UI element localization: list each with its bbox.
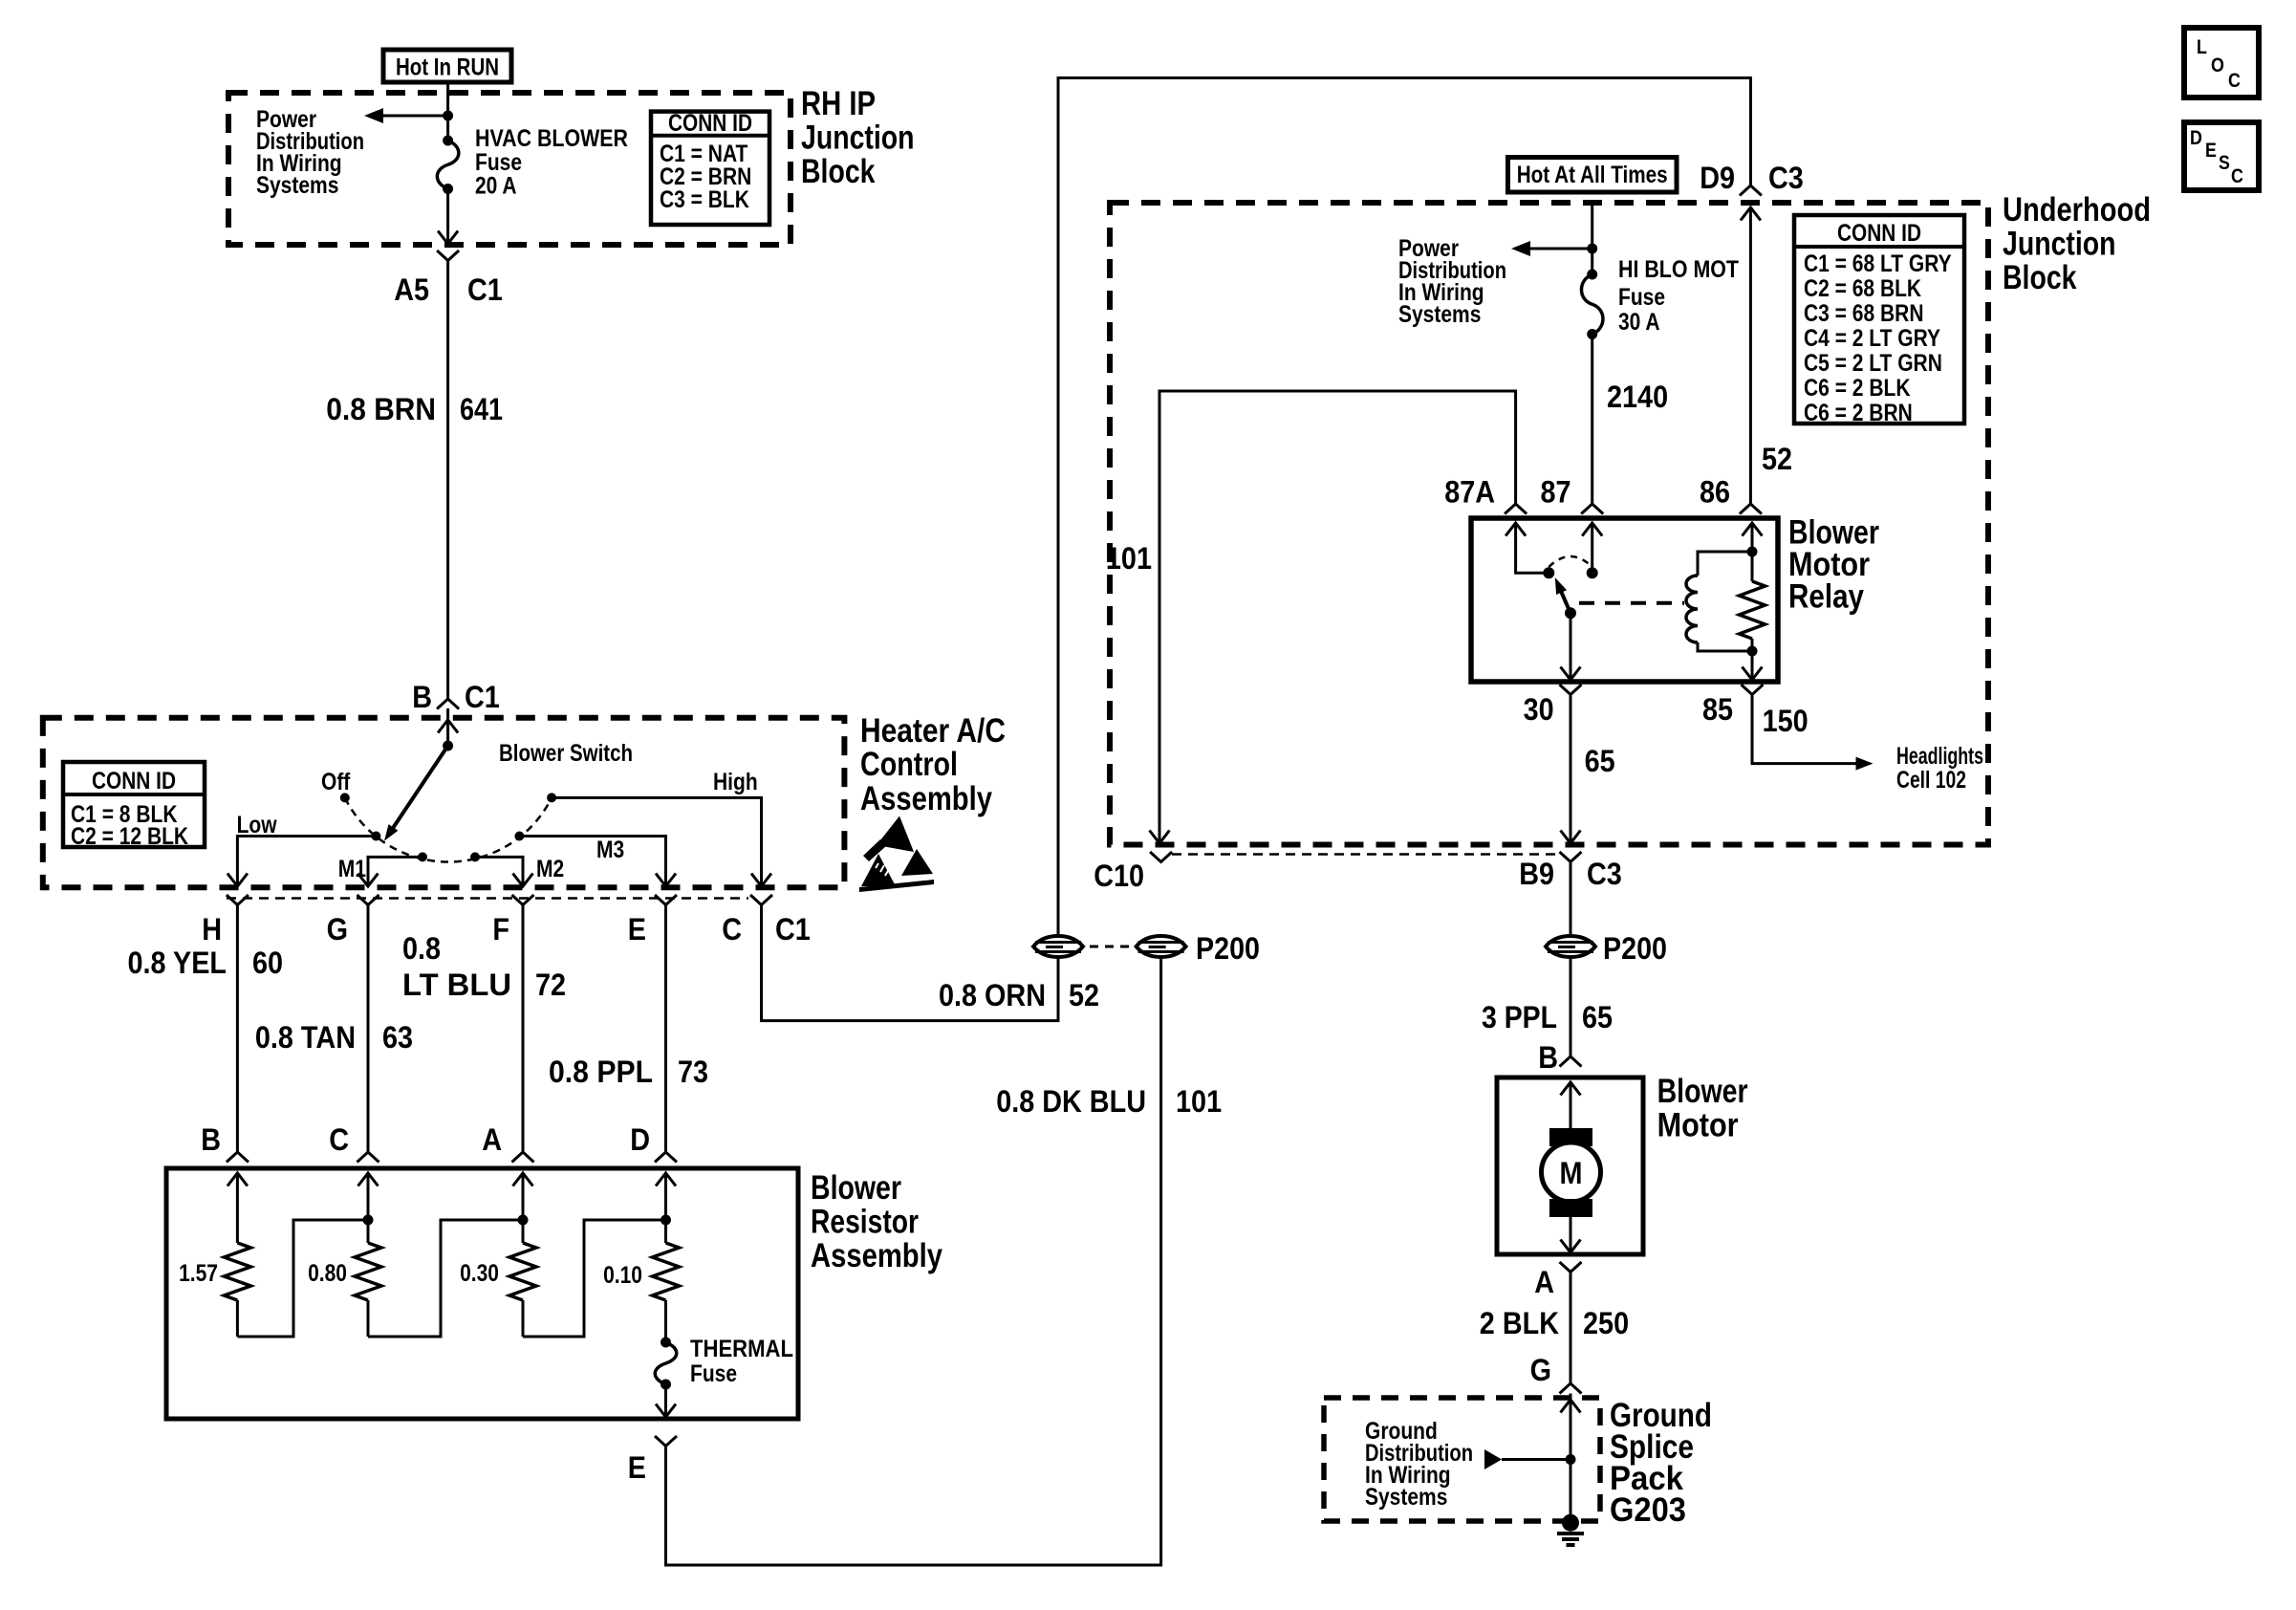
text: Power Distribution In Wiring Systems (underhood) (1398, 235, 1506, 328)
svg-text:LT BLU: LT BLU (402, 968, 511, 1002)
svg-text:C3: C3 (1768, 161, 1804, 195)
svg-text:B: B (1538, 1040, 1558, 1075)
wire M1 to pin G (368, 857, 422, 884)
connector C10 (1150, 852, 1172, 862)
svg-text:1.57: 1.57 (179, 1260, 218, 1287)
svg-text:30: 30 (1524, 692, 1554, 727)
connector pin C / C1 (750, 895, 772, 905)
wire 52 into box (arrow) down to relay 86 (1741, 207, 1761, 221)
svg-text:Low: Low (237, 812, 277, 838)
relay 86 internal arrow (1743, 523, 1763, 536)
svg-text:P200: P200 (1196, 931, 1260, 966)
connector G (1560, 1383, 1582, 1394)
switch travel arc (dashed) (345, 797, 552, 861)
relay 85 internal (1751, 651, 1754, 680)
connector pin F (512, 895, 534, 905)
svg-text:Blower Switch: Blower Switch (499, 740, 633, 767)
svg-text:C5 = 2 LT GRN: C5 = 2 LT GRN (1804, 350, 1942, 377)
svg-text:S: S (2219, 152, 2230, 174)
svg-text:150: 150 (1763, 704, 1809, 738)
svg-text:C10: C10 (1094, 859, 1144, 893)
wire 63 TAN (G to resistor C) (367, 905, 370, 1153)
svg-text:65: 65 (1582, 1000, 1613, 1034)
series links between resistor taps (237, 1220, 368, 1337)
svg-text:C: C (722, 912, 742, 946)
svg-text:C1 = 68 LT GRY: C1 = 68 LT GRY (1804, 250, 1952, 277)
relay 87 internal (1582, 523, 1602, 536)
svg-text:Underhood: Underhood (2003, 191, 2151, 228)
connector pin H (227, 895, 249, 905)
svg-text:0.8: 0.8 (402, 931, 441, 966)
svg-text:63: 63 (382, 1020, 413, 1055)
svg-text:C6 = 2 BRN: C6 = 2 BRN (1804, 400, 1913, 426)
svg-text:641: 641 (460, 392, 503, 426)
svg-text:Junction: Junction (801, 120, 915, 157)
svg-text:High: High (713, 769, 758, 795)
feed wire from Hot At All Times (1591, 206, 1593, 275)
label Hot At All Times (1508, 158, 1678, 193)
CONN ID table (underhood) (1794, 215, 1964, 426)
pin A entry arrow + resistor 0.30 (513, 1173, 533, 1186)
svg-text:73: 73 (678, 1055, 708, 1089)
svg-text:Hot In RUN: Hot In RUN (396, 54, 499, 81)
svg-text:101: 101 (1176, 1084, 1222, 1119)
arrow into heater box (438, 720, 458, 733)
Ground Splice Pack dashed boundary (1324, 1398, 1600, 1521)
svg-text:Resistor: Resistor (811, 1204, 919, 1241)
contact M2 (470, 852, 480, 861)
wire 65 PPL to blower motor (1570, 957, 1572, 1056)
text Ground Distribution In Wiring Systems (1365, 1418, 1473, 1511)
svg-text:H: H (202, 912, 222, 946)
wire 101: relay 87A up/left, down to C10 (1159, 391, 1516, 843)
contact M1 (418, 852, 427, 861)
grommet link dashed (1090, 946, 1132, 948)
DESC reference box (2184, 122, 2259, 190)
text Headlights Cell 102 (1896, 743, 1983, 794)
connector B9/C3 (1560, 852, 1582, 862)
svg-text:C: C (2231, 165, 2243, 187)
relay coil linkage (dashed) (1579, 601, 1684, 605)
ground distribution tap (1484, 1449, 1502, 1469)
relay suppression resistor (1740, 523, 1765, 657)
contact M3 (514, 832, 524, 841)
svg-text:0.8 PPL: 0.8 PPL (549, 1055, 653, 1089)
svg-text:A5: A5 (394, 272, 429, 307)
pin B entry arrow + resistor 1.57 (227, 1173, 248, 1186)
svg-text:0.30: 0.30 (460, 1260, 499, 1287)
connector pin E (655, 895, 677, 905)
svg-text:THERMAL: THERMAL (690, 1336, 793, 1362)
ESD symbol (859, 816, 934, 893)
svg-text:E: E (628, 912, 646, 946)
wire 73 PPL (E to resistor D) (664, 905, 667, 1153)
connector face (thin dashed) (1172, 853, 1558, 856)
wire to pin E, arrow out of box (664, 1384, 667, 1417)
Blower Resistor Assembly label (811, 1169, 942, 1274)
svg-text:Relay: Relay (1788, 578, 1864, 616)
contact Off (340, 793, 350, 802)
svg-text:Heater A/C: Heater A/C (860, 712, 1006, 750)
svg-text:G: G (1530, 1353, 1551, 1387)
svg-text:Assembly: Assembly (811, 1237, 942, 1274)
CONN ID table (RH IP) (651, 110, 769, 225)
relay coil (1686, 547, 1758, 652)
svg-text:M2: M2 (536, 856, 564, 882)
svg-text:0.8 BRN: 0.8 BRN (326, 392, 436, 426)
arrow into splice pack (1561, 1400, 1581, 1413)
grommet P200 (65 PPL) (1546, 936, 1595, 957)
svg-text:Headlights: Headlights (1896, 743, 1983, 770)
svg-text:86: 86 (1700, 475, 1730, 510)
relay 87A internal (1505, 523, 1526, 536)
svg-text:0.8 TAN: 0.8 TAN (255, 1020, 356, 1055)
svg-text:3 PPL: 3 PPL (1482, 1000, 1557, 1034)
connector A below motor (1560, 1262, 1582, 1273)
svg-text:C1: C1 (465, 680, 500, 714)
ground G203 (1557, 1514, 1584, 1545)
switch arm (392, 746, 448, 830)
svg-text:Systems: Systems (256, 172, 338, 199)
Blower Motor Relay label (1788, 514, 1879, 616)
grommet P200 (52 ORN) (1033, 936, 1083, 957)
relay pin 30 connector (1560, 685, 1582, 695)
svg-text:CONN ID: CONN ID (92, 768, 176, 794)
svg-text:E: E (2205, 140, 2217, 162)
svg-text:Systems: Systems (1398, 301, 1481, 328)
RH IP Junction Block dashed boundary (228, 93, 791, 245)
Heater A/C Control Assembly label (860, 712, 1006, 817)
svg-text:C2 = 68 BLK: C2 = 68 BLK (1804, 275, 1921, 302)
svg-text:Assembly: Assembly (860, 780, 992, 817)
svg-text:2 BLK: 2 BLK (1480, 1306, 1559, 1340)
wire M2 to pin F (475, 857, 523, 884)
relay contact 87A (1543, 567, 1554, 578)
svg-text:A: A (482, 1122, 502, 1157)
LOC reference box (2184, 28, 2259, 98)
svg-text:20 A: 20 A (475, 173, 517, 200)
svg-text:Off: Off (321, 769, 351, 795)
svg-text:B9: B9 (1519, 857, 1554, 891)
THERMAL fuse (655, 1300, 677, 1390)
svg-text:72: 72 (535, 968, 566, 1002)
Underhood Junction Block label (2003, 191, 2151, 296)
Blower Motor box (1497, 1077, 1643, 1254)
grommet P200 (101 DK BLU) (1137, 936, 1186, 957)
wire 72 LT BLU (F to resistor A) (522, 905, 525, 1153)
svg-text:D: D (630, 1122, 650, 1157)
svg-text:Fuse: Fuse (1618, 284, 1665, 311)
svg-text:G: G (327, 912, 348, 946)
svg-text:60: 60 (252, 946, 283, 980)
svg-text:C4 = 2 LT GRY: C4 = 2 LT GRY (1804, 325, 1940, 352)
wire M3 to pin E (519, 837, 665, 885)
svg-text:85: 85 (1702, 692, 1733, 727)
wire 65 (relay 30 to B9) (1570, 695, 1572, 844)
svg-text:87A: 87A (1444, 475, 1495, 510)
wire 2140 down to relay 87 (1591, 335, 1593, 505)
connector A5/C1 (437, 250, 459, 261)
arrow to power distribution (1587, 244, 1597, 254)
wire B9 down to P200 (1570, 862, 1572, 937)
heater connector face (thin dashed) (227, 897, 748, 900)
svg-text:0.10: 0.10 (603, 1262, 642, 1289)
relay armature travel arc (1549, 556, 1592, 567)
svg-text:65: 65 (1585, 744, 1615, 778)
svg-text:Junction: Junction (2003, 226, 2116, 263)
relay common 30 (1565, 607, 1576, 619)
svg-text:87: 87 (1541, 475, 1571, 510)
svg-text:Blower: Blower (1657, 1073, 1748, 1110)
svg-text:2140: 2140 (1607, 380, 1668, 414)
relay pin connectors 87A 87 86 (1505, 504, 1527, 514)
motor entry arrow (1561, 1082, 1581, 1096)
svg-text:D: D (2190, 127, 2202, 149)
relay pin 85 connector (1742, 685, 1764, 695)
svg-text:C3 = 68 BRN: C3 = 68 BRN (1804, 300, 1924, 327)
wire 52 ORN (C/C1 to C10) (762, 905, 1059, 1021)
svg-text:A: A (1534, 1265, 1554, 1299)
svg-text:D9: D9 (1700, 161, 1735, 195)
wire to power distribution (arrow left) (377, 115, 448, 118)
svg-text:HI BLO MOT: HI BLO MOT (1618, 256, 1739, 283)
svg-text:30 A: 30 A (1618, 309, 1660, 336)
Underhood Junction Block dashed boundary (1110, 203, 1988, 845)
Blower Motor label (1657, 1073, 1748, 1144)
svg-text:Cell 102: Cell 102 (1896, 767, 1966, 794)
svg-text:C3 = BLK: C3 = BLK (660, 186, 749, 213)
svg-text:52: 52 (1069, 978, 1099, 1012)
wire 150 to headlights (1752, 695, 1858, 764)
svg-text:C2 = 12 BLK: C2 = 12 BLK (71, 823, 188, 850)
svg-text:Control: Control (860, 746, 958, 783)
fuse HI BLO MOT 30 A (1581, 270, 1603, 340)
svg-text:CONN ID: CONN ID (668, 110, 752, 137)
svg-text:C: C (329, 1122, 349, 1157)
node: feed junction (443, 111, 453, 121)
svg-text:Hot At All Times: Hot At All Times (1517, 162, 1668, 188)
fuse HVAC BLOWER 20 A (437, 136, 459, 195)
svg-text:Systems: Systems (1365, 1484, 1447, 1511)
svg-text:B: B (201, 1122, 221, 1157)
motor M symbol (1542, 1128, 1601, 1217)
relay armature arm (1560, 590, 1570, 613)
wire 101 DK BLU bottom run (666, 957, 1161, 1565)
label: HVAC BLOWER Fuse 20 A (475, 125, 628, 200)
label HI BLO MOT Fuse 30 A (1618, 256, 1739, 336)
connector pin G (357, 895, 379, 905)
svg-text:Blower: Blower (811, 1169, 901, 1207)
svg-text:M: M (1560, 1156, 1583, 1190)
svg-text:Block: Block (2003, 259, 2077, 296)
connector pin E (resistor output) (655, 1436, 677, 1447)
blower switch (446, 708, 449, 746)
pin C entry arrow + resistor 0.80 (358, 1173, 379, 1186)
wire 250 BLK to ground (1570, 1273, 1572, 1384)
contact High (547, 793, 556, 802)
svg-text:M3: M3 (596, 837, 624, 863)
svg-text:O: O (2211, 54, 2224, 76)
svg-text:CONN ID: CONN ID (1837, 220, 1921, 247)
relay contact 87 (1587, 567, 1598, 578)
svg-text:Fuse: Fuse (690, 1360, 737, 1387)
wire 60 YEL (H to resistor B) (236, 905, 239, 1153)
svg-text:E: E (628, 1450, 646, 1485)
svg-text:0.8 ORN: 0.8 ORN (939, 978, 1046, 1012)
svg-text:C3: C3 (1587, 857, 1622, 891)
RH IP Junction Block label (801, 85, 915, 190)
wire 52 ORN up left side (1058, 78, 1751, 937)
svg-text:L: L (2197, 36, 2207, 58)
svg-text:C: C (2228, 70, 2241, 92)
svg-text:M1: M1 (338, 856, 366, 882)
Blower Motor Relay box (1471, 518, 1778, 682)
wire: Hot In RUN down to fuse (446, 82, 449, 141)
svg-text:101: 101 (1106, 541, 1152, 576)
svg-text:P200: P200 (1603, 931, 1667, 966)
svg-text:0.80: 0.80 (308, 1260, 347, 1287)
svg-text:Block: Block (801, 153, 876, 190)
svg-text:0.8 DK BLU: 0.8 DK BLU (996, 1084, 1146, 1119)
svg-text:C6 = 2 BLK: C6 = 2 BLK (1804, 375, 1911, 402)
wire High to pin C (552, 797, 761, 884)
CONN ID table (heater) (63, 762, 205, 850)
wire 641 BRN down to heater control (446, 261, 449, 700)
Heater A/C Control Assembly dashed boundary (43, 718, 845, 888)
svg-text:F: F (492, 912, 509, 946)
switch common node (443, 741, 453, 751)
svg-text:0.8 YEL: 0.8 YEL (128, 946, 227, 980)
svg-text:HVAC BLOWER: HVAC BLOWER (475, 125, 628, 152)
Ground Splice Pack label (1610, 1397, 1712, 1529)
svg-text:G203: G203 (1610, 1491, 1686, 1529)
svg-text:Motor: Motor (1657, 1107, 1739, 1144)
svg-text:C1: C1 (467, 272, 503, 307)
svg-text:RH IP: RH IP (801, 85, 876, 122)
contact Low (371, 832, 380, 841)
svg-text:52: 52 (1762, 442, 1792, 476)
wire exits RH IP block, arrow down (446, 189, 449, 244)
svg-text:250: 250 (1583, 1306, 1629, 1340)
Blower Resistor Assembly box (166, 1168, 798, 1419)
text: Power Distribution In Wiring Systems (256, 106, 364, 199)
power label "Hot In RUN" (383, 50, 511, 82)
wire Low to pin H (237, 837, 376, 885)
pin D entry arrow + resistor 0.10 (656, 1173, 676, 1186)
svg-text:B: B (412, 680, 432, 714)
connector pins into resistor assembly (227, 1152, 249, 1163)
svg-text:C1: C1 (775, 912, 811, 946)
